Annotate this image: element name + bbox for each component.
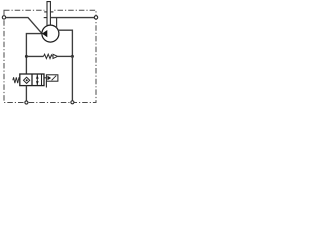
relief valve (box) (46, 75, 58, 81)
wire: pump outlet stub up (56, 18, 58, 28)
mask: boundary break at shaft (44, 9, 54, 11)
return port (bottom left, on boundary) (25, 101, 28, 104)
drive shaft (47, 2, 50, 26)
relief valve poppet (filled triangle) (47, 76, 51, 80)
check valve (open triangle) (53, 54, 58, 58)
wire: inlet branch L (26, 34, 42, 74)
wire: orifice line left (26, 55, 43, 57)
orifice restrictor (zigzag) (44, 54, 53, 58)
wire: valve drain to return port (25, 86, 27, 101)
valve seat ball (dot) (26, 79, 28, 81)
wire: suction line (6, 18, 42, 34)
shaft tick right top (50, 11, 53, 13)
flow control valve V1 body (two positions) (20, 74, 44, 86)
wire: relief valve drain stub (45, 81, 47, 87)
pump P1 (circle) (42, 25, 59, 42)
shaft tick left top (44, 11, 47, 13)
shaft tick left bottom (44, 17, 47, 19)
suction port (left, on boundary) (2, 16, 5, 19)
valve position 1: seat (diamond) (24, 77, 30, 83)
wire: valve to relief valve (44, 77, 47, 79)
enclosure boundary (pump unit case, dash-dot) (4, 10, 96, 102)
pressure port (right, on boundary) (94, 16, 97, 19)
wire: main vertical to return port (71, 56, 73, 100)
return port (bottom right, on boundary) (71, 101, 74, 104)
wire: pressure line to port (50, 17, 94, 19)
pump flow triangle (filled) (42, 30, 47, 37)
wire: pump outlet to main drop (58, 30, 72, 56)
relief valve spring (diagonal) (52, 76, 57, 81)
wire: orifice line right (58, 55, 73, 57)
valve position 2: flow path arrow up (36, 74, 38, 86)
node: junction at orifice line end (71, 55, 74, 58)
valve position 2: flow path arrow down (41, 74, 43, 86)
node: junction on feed line (25, 55, 28, 58)
spring (valve left) (13, 77, 20, 83)
